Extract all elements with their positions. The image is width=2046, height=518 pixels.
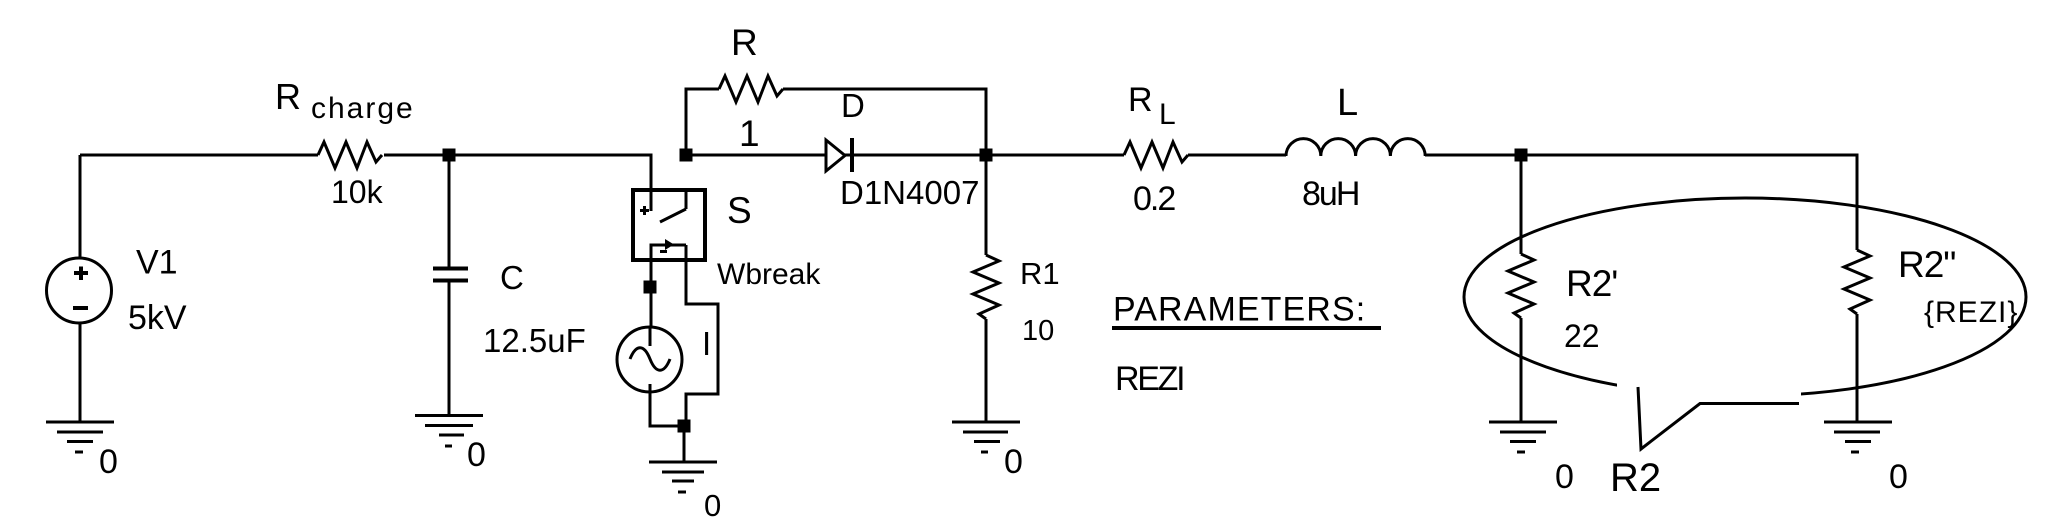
- svg-text:S: S: [727, 190, 752, 231]
- svg-text:0.2: 0.2: [1133, 180, 1175, 218]
- svg-text:5kV: 5kV: [128, 299, 187, 337]
- svg-text:0: 0: [1004, 443, 1023, 481]
- svg-text:22: 22: [1564, 318, 1600, 354]
- svg-text:L: L: [1337, 82, 1358, 124]
- svg-text:C: C: [500, 259, 524, 296]
- svg-text:8uH: 8uH: [1302, 175, 1358, 213]
- svg-text:{REZI}: {REZI}: [1924, 296, 2018, 329]
- svg-text:0: 0: [99, 443, 118, 481]
- svg-text:0: 0: [704, 488, 721, 518]
- svg-text:R: R: [731, 22, 758, 63]
- svg-text:R: R: [275, 76, 301, 117]
- svg-text:Wbreak: Wbreak: [717, 258, 821, 291]
- svg-text:R2": R2": [1898, 244, 1955, 285]
- svg-text:12.5uF: 12.5uF: [483, 322, 586, 359]
- svg-text:0: 0: [1555, 458, 1574, 496]
- svg-text:I: I: [702, 325, 711, 362]
- svg-text:R: R: [1128, 81, 1153, 119]
- svg-text:L: L: [1159, 98, 1176, 131]
- svg-text:0: 0: [467, 436, 486, 474]
- svg-text:V1: V1: [136, 244, 178, 282]
- svg-text:R2: R2: [1610, 456, 1661, 500]
- svg-text:D: D: [841, 87, 865, 124]
- svg-text:0: 0: [1889, 458, 1908, 496]
- svg-text:REZI: REZI: [1115, 360, 1183, 398]
- svg-text:charge: charge: [311, 92, 415, 125]
- svg-text:1: 1: [739, 113, 760, 154]
- svg-text:R1: R1: [1020, 256, 1060, 291]
- svg-text:D1N4007: D1N4007: [840, 174, 979, 211]
- svg-text:PARAMETERS:: PARAMETERS:: [1113, 291, 1366, 329]
- svg-text:10: 10: [1022, 315, 1054, 347]
- svg-text:10k: 10k: [331, 174, 384, 210]
- svg-text:R2': R2': [1566, 263, 1617, 304]
